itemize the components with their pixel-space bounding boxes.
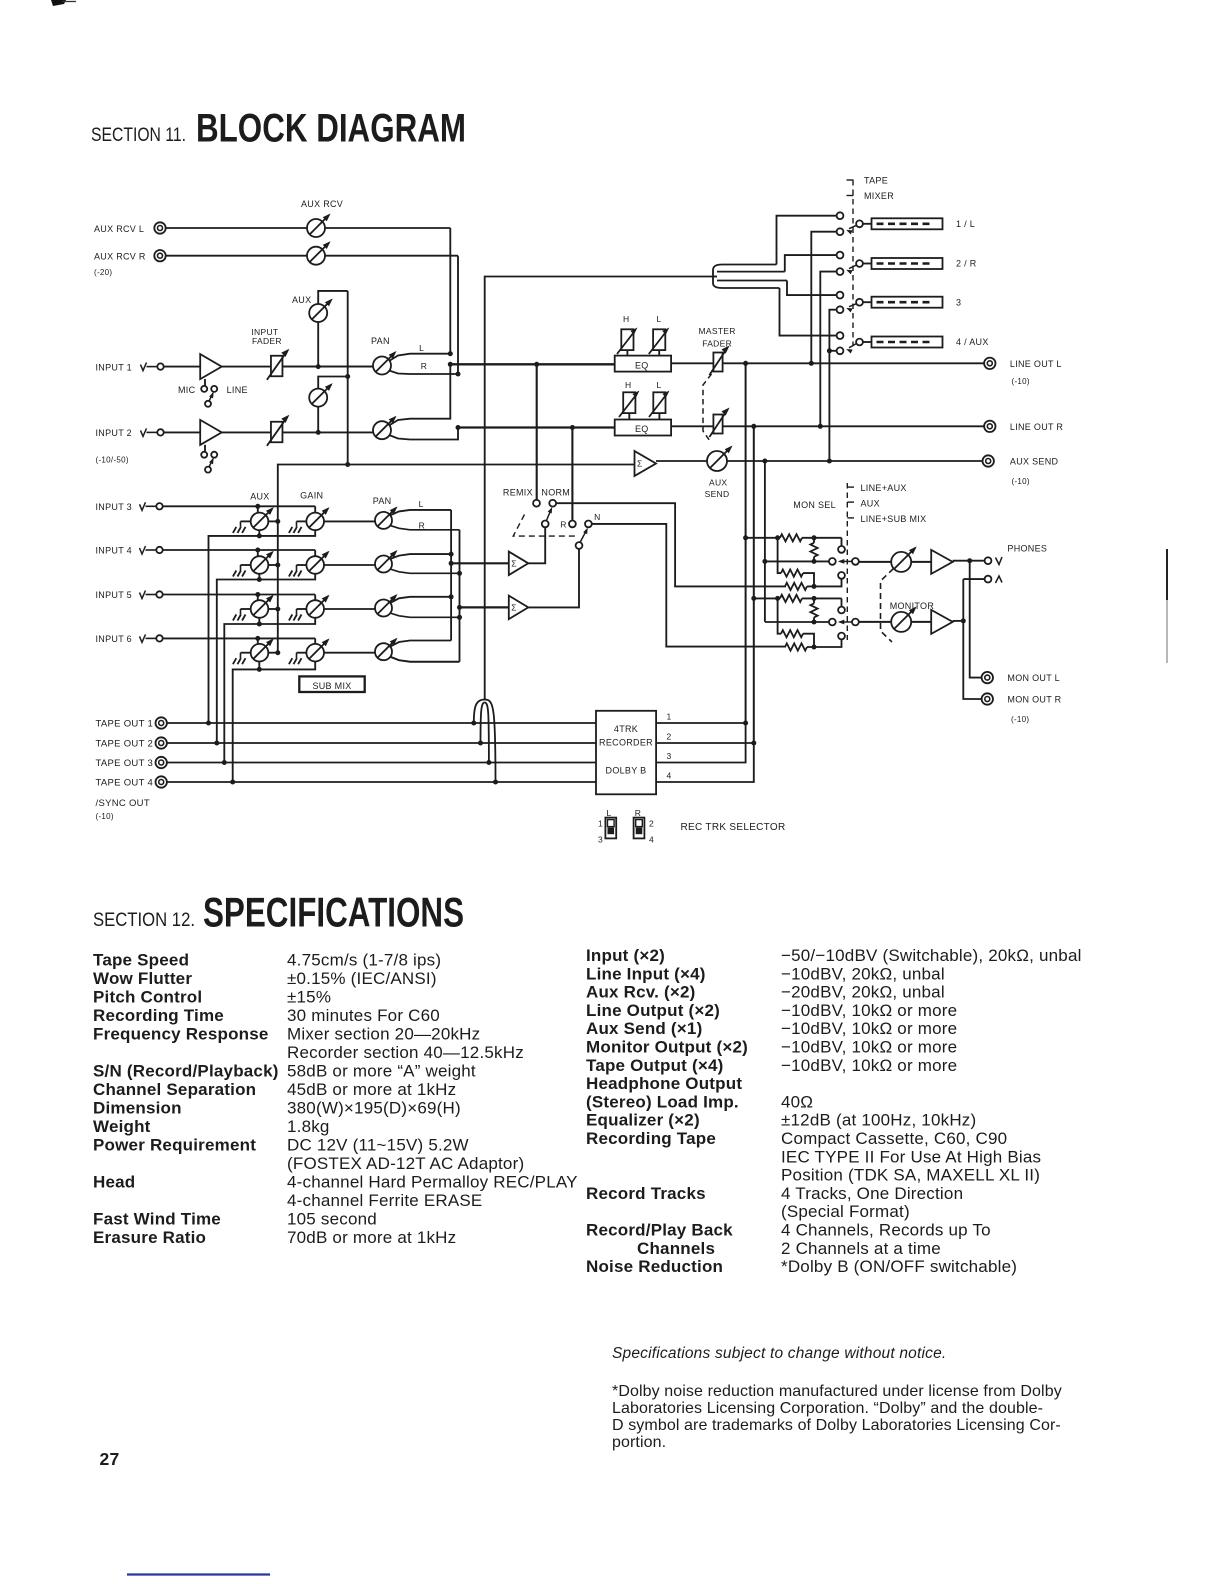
svg-text:58dB or more “A” weight: 58dB or more “A” weight — [287, 1062, 476, 1081]
bottom blue rule — [127, 1573, 270, 1575]
jack MON OUT L — [982, 672, 1060, 683]
svg-text:FADER: FADER — [252, 336, 282, 346]
svg-text:Frequency Response: Frequency Response — [93, 1025, 269, 1044]
svg-text:R: R — [635, 808, 641, 818]
jack INPUT 2 — [96, 428, 164, 438]
svg-text:MIXER: MIXER — [864, 191, 894, 201]
svg-text:27: 27 — [100, 1449, 120, 1469]
svg-text:Σ: Σ — [637, 459, 642, 469]
svg-text:L: L — [419, 499, 424, 509]
switch MIC/LINE input2 — [201, 445, 217, 473]
wire INPUT 6 line to pots — [163, 636, 316, 644]
svg-text:Erasure Ratio: Erasure Ratio — [93, 1228, 206, 1247]
svg-text:MON SEL: MON SEL — [793, 500, 836, 510]
svg-text:Aux Send (×1): Aux Send (×1) — [586, 1019, 702, 1038]
switch remix/norm (L) — [533, 500, 556, 527]
wire pan R out INPUT 3 — [390, 525, 460, 529]
wire tape bundle feed from recorder — [485, 277, 712, 701]
eq pot H (L channel) — [617, 328, 638, 356]
svg-text:Record/Play Back: Record/Play Back — [586, 1221, 733, 1240]
wire amp1 to fader to pan — [222, 366, 373, 368]
svg-text:N: N — [594, 512, 600, 522]
svg-text:4: 4 — [667, 771, 672, 781]
jack TAPE OUT 1 — [96, 717, 167, 729]
svg-text:Line Output (×2): Line Output (×2) — [586, 1001, 720, 1020]
svg-text:GAIN: GAIN — [300, 491, 323, 501]
svg-text:−10dBV, 20kΩ, unbal: −10dBV, 20kΩ, unbal — [781, 964, 945, 983]
wire MIXER contact ch2 to R line — [820, 272, 836, 427]
svg-text:±15%: ±15% — [287, 988, 331, 1007]
wire R drop to matrix and tape2 — [751, 426, 756, 743]
svg-text:MASTER: MASTER — [699, 326, 736, 336]
amp aux sum — [635, 451, 657, 476]
wire TAPE OUT 2 line — [167, 742, 596, 744]
svg-text:Head: Head — [93, 1173, 135, 1192]
wire GAIN to PAN INPUT 3 — [324, 520, 375, 522]
wire pan2 L out — [389, 364, 450, 425]
svg-text:S/N (Record/Playback): S/N (Record/Playback) — [93, 1062, 279, 1081]
wire input1 jack to amp — [164, 366, 201, 368]
label INPUT FADER — [251, 327, 281, 346]
svg-text:2: 2 — [649, 819, 654, 829]
pot GAIN INPUT 4 — [289, 551, 330, 577]
master fader L — [709, 346, 729, 376]
svg-text:Weight: Weight — [93, 1117, 151, 1136]
svg-text:Σ: Σ — [511, 603, 516, 613]
slider record level 1 / L — [863, 218, 975, 229]
svg-text:3: 3 — [598, 835, 603, 845]
amp input2 — [200, 420, 222, 445]
rec trk selector switches — [598, 808, 654, 845]
wire recorder out 1 — [656, 721, 748, 726]
pot monitor R — [891, 606, 917, 632]
svg-text:PHONES: PHONES — [1007, 543, 1047, 553]
dashed gang link master faders — [703, 374, 712, 441]
svg-text:TAPE: TAPE — [864, 176, 888, 186]
svg-text:SEND: SEND — [705, 489, 730, 499]
svg-text:(Special Format): (Special Format) — [781, 1202, 910, 1221]
pot AUX INPUT 3 — [233, 507, 280, 533]
svg-text:4-channel Ferrite ERASE: 4-channel Ferrite ERASE — [287, 1191, 482, 1210]
pot PAN INPUT 6 — [375, 638, 398, 661]
wire MIXER contacts ch3/ch4 to aux line — [827, 310, 837, 461]
wire GAIN to PAN INPUT 6 — [324, 652, 375, 654]
wire L bus drop to REMIX contact — [536, 364, 538, 500]
svg-text:TAPE OUT 4: TAPE OUT 4 — [96, 778, 154, 789]
svg-text:AUX RCV L: AUX RCV L — [94, 224, 144, 234]
svg-text:3: 3 — [956, 297, 961, 307]
bottom bus INPUT 6 to tape out — [230, 661, 315, 784]
pot GAIN INPUT 5 — [289, 595, 330, 621]
switch TAPE/MIXER ch3 contacts and pole — [837, 292, 863, 313]
switch TAPE/MIXER ch1 contacts and pole — [837, 212, 863, 235]
wire AUX RCV L to L bus — [166, 228, 451, 354]
svg-text:Mixer section 20—20kHz: Mixer section 20—20kHz — [287, 1025, 480, 1044]
svg-text:−10dBV, 10kΩ or more: −10dBV, 10kΩ or more — [781, 1001, 957, 1020]
jack TAPE OUT 4 — [96, 776, 167, 788]
svg-text:AUX: AUX — [861, 499, 880, 509]
svg-text:R: R — [560, 520, 566, 530]
svg-text:(-10): (-10) — [1012, 377, 1030, 386]
svg-text:4 Channels, Records up To: 4 Channels, Records up To — [781, 1221, 991, 1240]
wire amp2 to fader to pan — [222, 431, 373, 433]
wire TAPE OUT 4 line — [167, 781, 596, 783]
dashed mon sel selector line — [846, 483, 848, 640]
svg-text:−10dBV, 10kΩ or more: −10dBV, 10kΩ or more — [781, 1056, 957, 1075]
svg-text:Pitch Control: Pitch Control — [93, 988, 202, 1007]
svg-text:REMIX: REMIX — [503, 488, 533, 498]
wire L sum to amp — [451, 562, 509, 564]
wire R master bus — [456, 425, 615, 430]
svg-text:SECTION 11.: SECTION 11. — [91, 124, 186, 146]
svg-text:(Stereo) Load Imp.: (Stereo) Load Imp. — [586, 1092, 739, 1111]
svg-text:±12dB (at 100Hz, 10kHz): ±12dB (at 100Hz, 10kHz) — [781, 1111, 976, 1130]
wire pan1 L out to L bus — [389, 351, 453, 361]
svg-text:Channel Separation: Channel Separation — [93, 1080, 256, 1099]
jack INPUT 3 — [96, 502, 163, 512]
wire tape bundle riser to switch ch1 — [777, 216, 837, 265]
svg-text:L: L — [657, 314, 662, 324]
svg-text:MON OUT L: MON OUT L — [1007, 673, 1060, 683]
jack INPUT 6 — [96, 634, 163, 644]
spec table left column — [93, 951, 578, 1248]
wire aux drop to matrix — [762, 461, 767, 622]
bottom bus INPUT 4 to tape out — [214, 574, 315, 746]
phones ring contact from monitor amp — [953, 576, 1002, 624]
wire R sum to amp — [460, 606, 509, 608]
svg-text:LINE OUT L: LINE OUT L — [1010, 359, 1062, 369]
block EQ R — [615, 420, 671, 436]
eq pot L (R channel) — [649, 391, 670, 420]
svg-text:MIC: MIC — [178, 385, 196, 395]
jack LINE OUT R — [984, 421, 1063, 432]
wire pan R out INPUT 4 — [390, 569, 460, 573]
svg-text:AUX: AUX — [709, 477, 727, 487]
mon sel bracket labels — [847, 483, 926, 524]
wire matrix L pole to phones amp — [859, 561, 931, 563]
amp phones — [931, 550, 953, 574]
svg-text:Wow Flutter: Wow Flutter — [93, 969, 192, 988]
pot PAN INPUT 3 — [375, 506, 398, 529]
svg-text:INPUT 3: INPUT 3 — [96, 502, 132, 512]
svg-text:Line Input (×4): Line Input (×4) — [586, 964, 706, 983]
pot PAN INPUT 5 — [375, 594, 398, 617]
svg-text:4 / AUX: 4 / AUX — [956, 337, 989, 347]
wire tape bundle riser to switch ch2 — [785, 255, 837, 272]
wire L master bus — [448, 362, 615, 367]
pot PAN input1 — [373, 351, 397, 375]
svg-text:Σ: Σ — [511, 559, 516, 569]
scan edge artifact line right side — [1166, 549, 1168, 663]
svg-text:1.8kg: 1.8kg — [287, 1117, 330, 1136]
wire pan R out INPUT 5 — [390, 613, 460, 617]
svg-text:IEC TYPE II For Use At High Bi: IEC TYPE II For Use At High Bias — [781, 1147, 1041, 1166]
wire L drop to matrix and tape1 — [743, 363, 748, 723]
svg-text:−50/−10dBV (Switchable), 20kΩ,: −50/−10dBV (Switchable), 20kΩ, unbal — [781, 946, 1082, 965]
wire monitor R to MON OUT R — [963, 579, 981, 699]
svg-text:EQ: EQ — [635, 360, 649, 370]
svg-text:(-10): (-10) — [96, 812, 114, 821]
svg-text:2 Channels at a time: 2 Channels at a time — [781, 1239, 941, 1258]
svg-text:2: 2 — [667, 732, 672, 742]
wire INPUT 3 line to pots — [163, 504, 316, 513]
pot AUX input2 — [309, 374, 350, 432]
svg-text:Channels: Channels — [637, 1239, 715, 1258]
svg-text:45dB or more at 1kHz: 45dB or more at 1kHz — [287, 1080, 456, 1099]
svg-text:Tape Speed: Tape Speed — [93, 951, 189, 970]
pot AUX INPUT 4 — [233, 551, 280, 577]
svg-text:INPUT 1: INPUT 1 — [96, 362, 132, 372]
svg-text:AUX: AUX — [292, 295, 311, 305]
svg-text:1: 1 — [598, 819, 603, 829]
svg-text:D symbol are trademarks of Dol: D symbol are trademarks of Dolby Laborat… — [612, 1417, 1061, 1434]
svg-text:AUX RCV R: AUX RCV R — [94, 252, 146, 262]
cable bundle lasso to tape lines — [471, 700, 498, 785]
svg-text:3: 3 — [667, 751, 672, 761]
svg-text:Compact Cassette, C60, C90: Compact Cassette, C60, C90 — [781, 1129, 1007, 1148]
dashed TAPE/MIXER selector line — [852, 180, 854, 346]
jack INPUT 5 — [96, 590, 163, 600]
wire input2 jack to amp — [164, 431, 201, 433]
svg-text:Input (×2): Input (×2) — [586, 946, 665, 965]
wire recorder out 2 — [656, 741, 756, 746]
svg-text:105 second: 105 second — [287, 1210, 377, 1229]
svg-text:4TRK: 4TRK — [614, 724, 638, 734]
svg-text:*Dolby B (ON/OFF switchable): *Dolby B (ON/OFF switchable) — [781, 1257, 1017, 1276]
svg-text:LINE OUT R: LINE OUT R — [1010, 422, 1064, 432]
svg-text:Equalizer (×2): Equalizer (×2) — [586, 1111, 700, 1130]
svg-text:Dimension: Dimension — [93, 1099, 182, 1118]
pot GAIN INPUT 6 — [289, 638, 330, 664]
wire recorder out 3 — [656, 723, 746, 763]
fader input2 — [267, 415, 290, 446]
pot AUX input1 — [309, 291, 348, 367]
wire INPUT 4 line to pots — [163, 548, 316, 557]
svg-text:1 / L: 1 / L — [956, 219, 975, 229]
svg-text:Noise Reduction: Noise Reduction — [586, 1257, 723, 1276]
pot monitor L — [891, 546, 917, 572]
label MASTER FADER — [699, 326, 736, 348]
monitor matrix R (resistors and selector) — [754, 595, 859, 651]
svg-text:380(W)×195(D)×69(H): 380(W)×195(D)×69(H) — [287, 1099, 461, 1118]
eq pot L (L channel) — [649, 328, 670, 356]
svg-text:SECTION 12.: SECTION 12. — [93, 909, 195, 931]
pot AUX INPUT 6 — [233, 638, 280, 664]
amp input1 — [200, 354, 222, 379]
amp sum R (remix) — [509, 549, 579, 619]
svg-text:(-20): (-20) — [94, 268, 112, 277]
svg-text:4-channel Hard Permalloy REC/P: 4-channel Hard Permalloy REC/PLAY — [287, 1173, 578, 1192]
wire pan R out INPUT 6 — [390, 657, 460, 662]
svg-text:*Dolby noise reduction manufac: *Dolby noise reduction manufactured unde… — [612, 1383, 1062, 1400]
spec table right column — [586, 946, 1082, 1276]
label MIXER bracket — [847, 191, 895, 201]
svg-text:LINE+AUX: LINE+AUX — [861, 483, 907, 493]
svg-text:TAPE OUT 1: TAPE OUT 1 — [96, 719, 154, 730]
svg-text:1: 1 — [667, 712, 672, 722]
svg-text:NORM: NORM — [541, 488, 570, 498]
svg-text:Tape Output (×4): Tape Output (×4) — [586, 1056, 723, 1075]
pot PAN INPUT 4 — [375, 550, 398, 573]
jack TAPE OUT 2 — [96, 737, 167, 749]
wire MIXER contact ch1 to L line — [811, 232, 836, 364]
R sum bus ch3-6 — [457, 530, 462, 662]
svg-text:−10dBV, 10kΩ or more: −10dBV, 10kΩ or more — [781, 1038, 957, 1057]
svg-text:REC TRK SELECTOR: REC TRK SELECTOR — [681, 822, 786, 833]
wire EQ L to LINE OUT L — [671, 361, 984, 366]
svg-text:Recording Time: Recording Time — [93, 1006, 224, 1025]
svg-text:H: H — [623, 314, 629, 324]
wire recorder out 4 — [656, 743, 754, 782]
svg-text:PAN: PAN — [373, 496, 392, 506]
svg-text:2 / R: 2 / R — [956, 259, 977, 269]
section 12 heading — [93, 889, 464, 936]
amp sum L (remix) — [509, 527, 545, 575]
svg-text:MON OUT R: MON OUT R — [1007, 695, 1061, 705]
svg-text:TAPE OUT 3: TAPE OUT 3 — [96, 758, 154, 769]
svg-text:LINE+SUB MIX: LINE+SUB MIX — [861, 514, 927, 524]
svg-text:Aux Rcv. (×2): Aux Rcv. (×2) — [586, 983, 696, 1002]
wire R bus drop to R contact — [571, 428, 573, 521]
wire N contact to submix R feed — [592, 524, 786, 647]
wire pan L out INPUT 3 — [390, 510, 451, 516]
svg-text:AUX: AUX — [250, 492, 269, 502]
slider record level 2 / R — [863, 258, 977, 269]
svg-text:INPUT 6: INPUT 6 — [96, 634, 132, 644]
master fader R — [709, 408, 729, 438]
pot AUX INPUT 5 — [233, 595, 280, 621]
svg-text:BLOCK DIAGRAM: BLOCK DIAGRAM — [196, 107, 466, 151]
svg-text:(-10): (-10) — [1012, 477, 1030, 486]
pot AUX RCV R — [307, 241, 331, 265]
wire NORM contact to submix L feed — [556, 503, 786, 586]
svg-text:40Ω: 40Ω — [781, 1092, 813, 1111]
wire aux corner into matrix R mid — [764, 621, 766, 623]
dashed gang link monitor pots — [881, 569, 894, 643]
wire matrix R pole to monitor amp — [859, 621, 931, 623]
junction dots input1/2 aux taps — [316, 364, 321, 435]
wire EQ R to LINE OUT R — [671, 424, 984, 429]
svg-text:−10dBV, 10kΩ or more: −10dBV, 10kΩ or more — [781, 1019, 957, 1038]
wire TAPE OUT 3 line — [167, 762, 596, 764]
svg-text:H: H — [625, 380, 631, 390]
jack TAPE OUT 3 — [96, 757, 167, 769]
switch MIC/LINE input1 — [178, 379, 248, 407]
svg-text:Position (TDK SA, MAXELL XL II: Position (TDK SA, MAXELL XL II) — [781, 1166, 1040, 1185]
wire INPUT 5 line to pots — [163, 592, 316, 600]
jack LINE OUT L — [984, 358, 1062, 386]
monitor matrix L (resistors and selector) — [746, 534, 859, 590]
svg-text:Headphone Output: Headphone Output — [586, 1074, 742, 1093]
block EQ L — [615, 356, 671, 372]
svg-text:EQ: EQ — [635, 424, 649, 434]
wire pan L out INPUT 4 — [390, 554, 451, 559]
svg-text:Record Tracks: Record Tracks — [586, 1184, 706, 1203]
wire tape bundle to switch ch3 — [787, 281, 837, 296]
wire fader1 to pan1 — [283, 366, 374, 368]
svg-text:/SYNC OUT: /SYNC OUT — [96, 798, 150, 809]
wire GAIN to PAN INPUT 5 — [324, 608, 375, 610]
switch TAPE/MIXER ch2 contacts and pole — [837, 252, 863, 275]
pot PAN input2 — [373, 416, 397, 440]
jack INPUT 4 — [96, 546, 163, 556]
aux bus vertical from input1/2 aux pots — [347, 291, 349, 465]
svg-text:DOLBY B: DOLBY B — [606, 766, 647, 776]
bottom bus INPUT 3 to tape out — [206, 530, 315, 726]
svg-text:Recorder section 40—12.5kHz: Recorder section 40—12.5kHz — [287, 1043, 524, 1062]
bottom bus INPUT 5 to tape out — [222, 618, 315, 766]
svg-text:Power Requirement: Power Requirement — [93, 1136, 256, 1155]
wire pan2 R out — [389, 428, 458, 440]
pot AUX SEND — [705, 446, 733, 500]
box SUB MIX — [299, 676, 364, 692]
svg-text:INPUT 2: INPUT 2 — [96, 428, 132, 438]
svg-text:SPECIFICATIONS: SPECIFICATIONS — [203, 889, 464, 936]
pot AUX RCV L — [307, 214, 331, 238]
svg-text:Fast Wind Time: Fast Wind Time — [93, 1210, 221, 1229]
scan corner mark — [51, 0, 76, 6]
cable bundle fan (tape returns) — [712, 265, 787, 289]
svg-text:4.75cm/s (1-7/8 ips): 4.75cm/s (1-7/8 ips) — [287, 951, 441, 970]
wire pan L out INPUT 6 — [390, 641, 451, 647]
svg-text:L: L — [607, 808, 612, 818]
L sum bus ch3-6 — [449, 510, 454, 641]
wire TAPE OUT 1 line — [167, 722, 596, 724]
svg-text:RECORDER: RECORDER — [599, 738, 653, 748]
svg-text:30 minutes For C60: 30 minutes For C60 — [287, 1006, 440, 1025]
wire AUX RCV R to R bus — [166, 256, 458, 374]
svg-text:−20dBV, 20kΩ, unbal: −20dBV, 20kΩ, unbal — [781, 983, 945, 1002]
slider record level 3 — [863, 297, 961, 308]
svg-text:Monitor Output (×2): Monitor Output (×2) — [586, 1038, 748, 1057]
svg-text:L: L — [419, 343, 424, 353]
wire tape bundle to switch ch4 — [780, 288, 837, 336]
svg-text:Laboratories Licensing Corpora: Laboratories Licensing Corporation. “Dol… — [612, 1400, 1043, 1417]
svg-text:INPUT 4: INPUT 4 — [96, 546, 132, 556]
svg-text:Specifications subject to chan: Specifications subject to change without… — [612, 1345, 946, 1362]
amp monitor — [931, 610, 953, 634]
eq pot H (R channel) — [619, 391, 640, 420]
svg-text:TAPE OUT 2: TAPE OUT 2 — [96, 739, 154, 750]
block 4TRK RECORDER DOLBY B — [596, 711, 656, 795]
jack AUX RCV R — [94, 250, 166, 262]
aux bus vertical ch3-6 — [278, 462, 635, 521]
svg-text:R: R — [421, 361, 427, 371]
wire pan1 R out to R bus — [389, 371, 461, 377]
phones tip contact — [985, 557, 1002, 565]
wire phones amp to jack — [953, 558, 985, 563]
label TAPE bracket — [847, 176, 889, 186]
pot GAIN INPUT 3 — [289, 507, 330, 533]
section 11 heading — [91, 107, 466, 151]
wire GAIN to PAN INPUT 4 — [324, 564, 375, 566]
switch TAPE/MIXER ch4 contacts and pole — [837, 332, 863, 354]
svg-text:4: 4 — [649, 835, 654, 845]
dashed gang link remix switches — [513, 515, 575, 537]
wire pan L out INPUT 5 — [390, 597, 451, 603]
svg-text:4 Tracks, One Direction: 4 Tracks, One Direction — [781, 1184, 963, 1203]
jack INPUT 1 — [96, 362, 164, 372]
wire aux line to AUX SEND jack — [656, 459, 983, 464]
svg-text:portion.: portion. — [612, 1434, 666, 1451]
svg-text:(FOSTEX AD-12T AC Adaptor): (FOSTEX AD-12T AC Adaptor) — [287, 1154, 524, 1173]
svg-text:Recording Tape: Recording Tape — [586, 1129, 716, 1148]
dolby license paragraph — [612, 1383, 1062, 1451]
wire monitor L to MON OUT L — [970, 561, 982, 678]
fader input1 — [267, 349, 290, 380]
svg-text:(-10/-50): (-10/-50) — [96, 456, 129, 465]
svg-text:AUX RCV: AUX RCV — [301, 199, 343, 209]
